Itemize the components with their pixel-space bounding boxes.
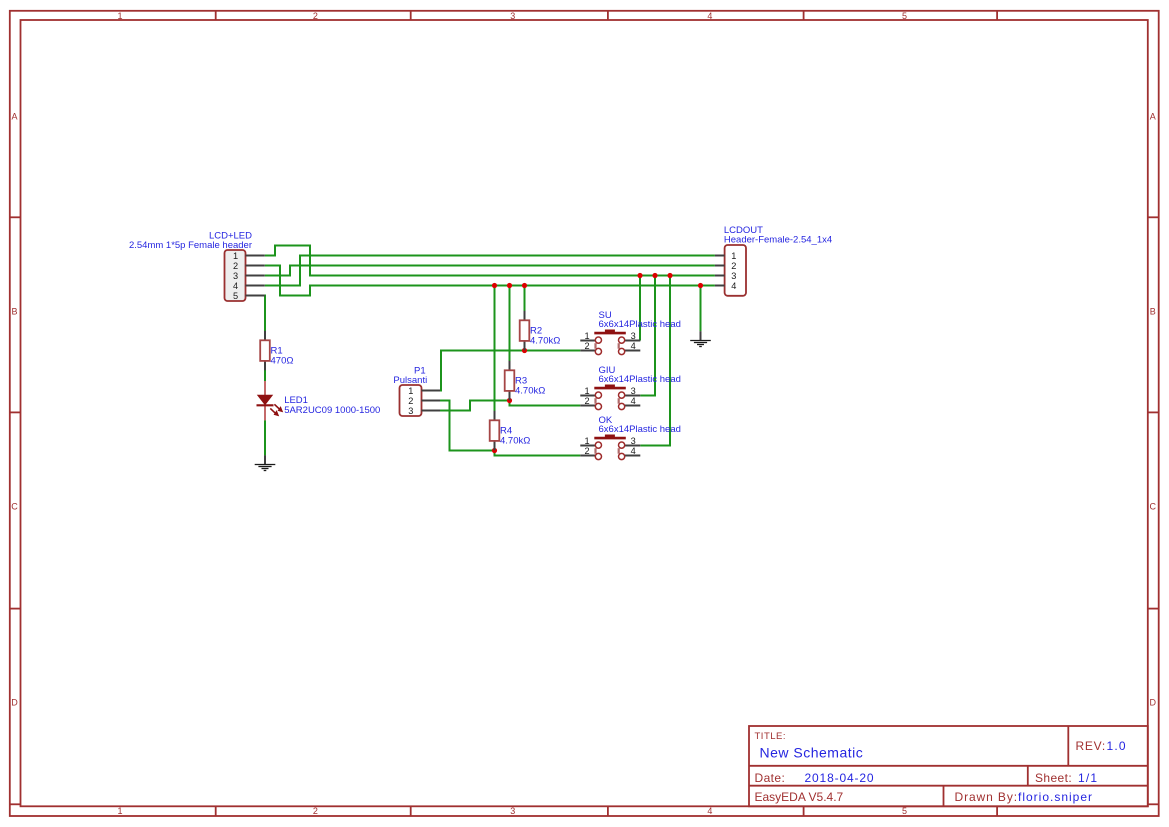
svg-text:470Ω: 470Ω xyxy=(271,355,294,366)
pushbutton OK pin lines xyxy=(580,446,640,456)
frame column numbers bottom xyxy=(117,806,907,816)
LED1 cathode pin xyxy=(264,405,266,420)
svg-text:3: 3 xyxy=(233,271,238,281)
svg-text:EasyEDA V5.4.7: EasyEDA V5.4.7 xyxy=(755,790,844,804)
svg-text:1: 1 xyxy=(117,11,122,21)
wire OK pin3 up to rail xyxy=(640,276,670,446)
svg-text:2: 2 xyxy=(233,261,238,271)
svg-text:6x6x14Plastic head: 6x6x14Plastic head xyxy=(599,424,681,435)
svg-text:5: 5 xyxy=(233,291,238,301)
svg-text:D: D xyxy=(11,698,18,708)
svg-text:New Schematic: New Schematic xyxy=(760,745,864,761)
pushbutton GIU pin numbers xyxy=(584,386,635,406)
svg-text:A: A xyxy=(1150,111,1156,121)
connector LCD+LED pins 1-5 xyxy=(246,256,265,296)
pushbutton OK contact circles xyxy=(595,442,624,460)
title block Sheet xyxy=(1035,771,1098,785)
resistor R3 body xyxy=(505,370,515,391)
svg-text:2: 2 xyxy=(731,261,736,271)
junction R4 bottom xyxy=(492,448,497,453)
junction R3 bottom xyxy=(507,398,512,403)
frame row ticks left xyxy=(10,217,21,804)
svg-text:3: 3 xyxy=(631,386,636,396)
svg-text:Drawn By:: Drawn By: xyxy=(955,790,1018,804)
junction R3 top xyxy=(507,283,512,288)
LED1 emission arrows xyxy=(270,404,282,415)
svg-text:1: 1 xyxy=(408,386,413,396)
wire LCD pin2 to LCDOUT pin4 (crossover) xyxy=(265,266,715,296)
title block REV xyxy=(1076,739,1127,753)
pushbutton OK actuator bar xyxy=(594,437,626,440)
svg-text:2: 2 xyxy=(313,11,318,21)
resistor R2 body xyxy=(520,320,530,341)
svg-text:4: 4 xyxy=(707,11,712,21)
connector P1 body xyxy=(400,385,422,416)
svg-text:4.70kΩ: 4.70kΩ xyxy=(515,385,545,396)
pushbutton OK pin numbers xyxy=(584,436,635,456)
wire GIU pin3 up to rail xyxy=(640,276,655,396)
title block frame xyxy=(749,726,1148,806)
svg-text:2: 2 xyxy=(408,396,413,406)
ground GND2 (LCDOUT rail) pin xyxy=(700,331,702,341)
svg-text:2.54mm 1*5p Female header: 2.54mm 1*5p Female header xyxy=(129,240,252,251)
wire P1 pin1 to R2 bottom / SU pin2 xyxy=(440,351,580,391)
svg-text:3: 3 xyxy=(631,436,636,446)
svg-text:TITLE:: TITLE: xyxy=(755,731,787,742)
wire R1 to LED1 xyxy=(264,370,266,381)
resistor R2 pins xyxy=(524,311,526,351)
svg-text:REV:: REV: xyxy=(1076,739,1106,753)
svg-text:4.70kΩ: 4.70kΩ xyxy=(530,335,560,346)
frame column numbers top xyxy=(117,11,907,21)
LED1 anode pin xyxy=(264,381,266,395)
svg-text:2: 2 xyxy=(313,806,318,816)
pushbutton GIU pin lines xyxy=(580,396,640,406)
svg-text:4: 4 xyxy=(707,806,712,816)
resistor R3 pins xyxy=(509,361,511,401)
connector LCDOUT body xyxy=(725,245,746,296)
junction R4 top xyxy=(492,283,497,288)
svg-text:D: D xyxy=(1150,698,1157,708)
svg-text:4: 4 xyxy=(631,396,636,406)
svg-text:florio.sniper: florio.sniper xyxy=(1018,790,1093,804)
svg-text:4: 4 xyxy=(631,446,636,456)
svg-text:4: 4 xyxy=(631,341,636,351)
connector LCD+LED pin numbers xyxy=(233,251,238,301)
svg-text:2018-04-20: 2018-04-20 xyxy=(805,771,875,785)
wire SU pin3 up to rail xyxy=(639,276,641,341)
svg-text:2: 2 xyxy=(584,396,589,406)
svg-text:B: B xyxy=(1150,306,1156,316)
ground GND1 (LED return) bars xyxy=(255,465,276,471)
svg-text:C: C xyxy=(1150,502,1157,512)
wire LCD pin4 to LCDOUT pin1 (crossover) xyxy=(265,256,715,286)
svg-text:3: 3 xyxy=(631,331,636,341)
svg-text:1/1: 1/1 xyxy=(1078,771,1098,785)
svg-text:C: C xyxy=(11,502,18,512)
junction ground tap xyxy=(698,283,703,288)
frame row ticks right xyxy=(1148,217,1159,804)
svg-text:Sheet:: Sheet: xyxy=(1035,771,1072,785)
pushbutton SU pin lines xyxy=(580,341,640,351)
svg-text:A: A xyxy=(11,111,17,121)
frame row letters right xyxy=(1150,111,1157,707)
pushbutton SU contact circles xyxy=(595,337,624,355)
wire LCD pin1 to LCDOUT pin3 (crossover) xyxy=(265,246,715,276)
connector P1 pins 1-3 xyxy=(422,391,441,411)
wire LCDOUT pin4 rail to right ground xyxy=(700,286,702,332)
pushbutton SU contact bars xyxy=(596,343,619,349)
ground GND2 (LCDOUT rail) bars xyxy=(690,341,711,347)
svg-text:1.0: 1.0 xyxy=(1107,739,1127,753)
wire rail to R3 top xyxy=(509,286,511,362)
frame column ticks bottom xyxy=(216,806,997,816)
LED1 triangle xyxy=(258,395,272,404)
svg-text:Pulsanti: Pulsanti xyxy=(393,375,427,386)
connector J LCD+LED body xyxy=(225,250,246,301)
junction SU output xyxy=(637,273,642,278)
wire P1 pin2 to R4 bottom / OK pin2 xyxy=(440,401,580,456)
pushbutton OK contact bars xyxy=(596,448,619,454)
svg-text:4: 4 xyxy=(731,281,736,291)
svg-text:B: B xyxy=(11,306,17,316)
svg-text:3: 3 xyxy=(731,271,736,281)
svg-text:5AR2UC09 1000-1500: 5AR2UC09 1000-1500 xyxy=(284,405,380,416)
junction GIU output xyxy=(652,273,657,278)
resistor R4 pins xyxy=(494,411,496,451)
junction OK output xyxy=(667,273,672,278)
svg-text:Date:: Date: xyxy=(755,771,786,785)
connector P1 pin numbers xyxy=(408,386,413,416)
pushbutton SU pin numbers xyxy=(584,331,635,351)
svg-text:3: 3 xyxy=(408,406,413,416)
svg-text:1: 1 xyxy=(584,386,589,396)
title block Drawn By xyxy=(955,790,1094,804)
svg-text:3: 3 xyxy=(510,806,515,816)
wire LED1 to ground xyxy=(264,420,266,455)
LED1 cathode bar xyxy=(257,404,274,406)
svg-text:4.70kΩ: 4.70kΩ xyxy=(500,435,530,446)
pushbutton GIU contact bars xyxy=(596,398,619,404)
svg-text:1: 1 xyxy=(233,251,238,261)
wire LCD pin3 to LCDOUT pin2 (crossover) xyxy=(265,266,715,276)
pushbutton SU actuator bar xyxy=(594,332,626,335)
svg-text:6x6x14Plastic head: 6x6x14Plastic head xyxy=(599,319,681,330)
resistor R1 pins xyxy=(264,331,266,371)
svg-text:1: 1 xyxy=(584,436,589,446)
wire LCD pin5 down to R1 xyxy=(264,295,266,332)
connector LCDOUT pin numbers xyxy=(731,251,736,291)
junction R2 bottom xyxy=(522,348,527,353)
wire rail to R4 top xyxy=(494,286,496,412)
svg-text:1: 1 xyxy=(731,251,736,261)
wire rail to R2 top xyxy=(524,286,526,312)
svg-text:2: 2 xyxy=(584,341,589,351)
pushbutton GIU actuator bar xyxy=(594,387,626,390)
svg-text:1: 1 xyxy=(117,806,122,816)
connector LCDOUT pins 1-4 xyxy=(715,256,725,286)
junction R2 top xyxy=(522,283,527,288)
svg-text:5: 5 xyxy=(902,806,907,816)
svg-text:3: 3 xyxy=(510,11,515,21)
svg-text:5: 5 xyxy=(902,11,907,21)
resistor R4 body xyxy=(490,420,500,441)
title block Date xyxy=(755,771,875,785)
wire P1 pin3 to R3 bottom / GIU pin2 xyxy=(440,401,580,411)
svg-text:4: 4 xyxy=(233,281,238,291)
svg-text:2: 2 xyxy=(584,446,589,456)
pushbutton GIU contact circles xyxy=(595,392,624,410)
frame row letters left xyxy=(11,111,18,707)
resistor R1 body xyxy=(260,340,270,361)
frame column ticks top xyxy=(216,11,997,20)
svg-text:6x6x14Plastic head: 6x6x14Plastic head xyxy=(599,374,681,385)
svg-text:1: 1 xyxy=(584,331,589,341)
svg-text:Header-Female-2.54_1x4: Header-Female-2.54_1x4 xyxy=(724,234,832,245)
ground GND1 (LED return) pin xyxy=(264,455,266,465)
